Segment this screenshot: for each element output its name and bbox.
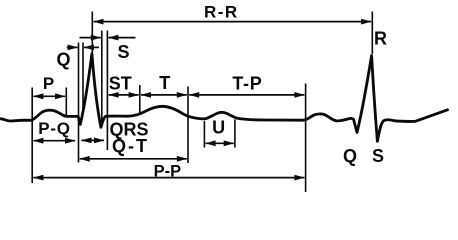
- svg-text:P-Q: P-Q: [38, 119, 71, 138]
- svg-text:P: P: [43, 74, 54, 93]
- svg-text:Q-T: Q-T: [112, 136, 149, 156]
- svg-text:S: S: [372, 146, 384, 166]
- svg-text:U: U: [212, 118, 225, 138]
- svg-text:S: S: [117, 42, 129, 62]
- svg-text:R: R: [374, 28, 387, 48]
- svg-text:T: T: [159, 73, 170, 93]
- svg-text:Q: Q: [56, 50, 70, 70]
- svg-text:P-P: P-P: [154, 162, 182, 180]
- svg-text:R-R: R-R: [204, 2, 239, 21]
- svg-text:ST: ST: [109, 73, 132, 93]
- svg-text:Q: Q: [343, 146, 357, 166]
- svg-text:T-P: T-P: [232, 74, 262, 94]
